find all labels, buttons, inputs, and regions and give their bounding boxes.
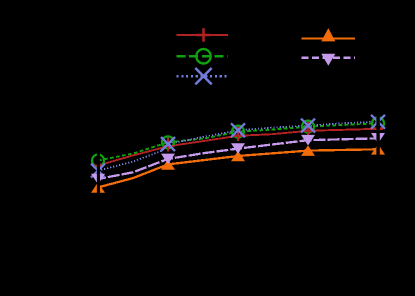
blue X markers	[91, 115, 385, 178]
orange triangle-up markers	[91, 144, 385, 193]
legend entry: orange line with triangle-up marker	[302, 28, 356, 41]
series line: green dashed	[98, 123, 378, 160]
legend entry: green dashed line with circle marker	[177, 49, 229, 63]
series line: red solid	[98, 129, 378, 166]
right axis spine (black, drawn over markers)	[376, 22, 379, 221]
green circle markers	[92, 117, 384, 166]
red error bars	[98, 119, 378, 170]
series line: orange solid	[98, 149, 378, 187]
legend entry: blue dotted line with X marker	[177, 68, 229, 84]
legend entry: purple dashed line with triangle-down marker	[302, 54, 356, 66]
series line: blue dotted	[98, 122, 378, 171]
series line: purple long-dashed	[98, 138, 378, 179]
red plus markers	[93, 124, 383, 171]
purple triangle-down markers	[91, 133, 385, 184]
legend entry: red line with plus marker	[177, 28, 229, 42]
left axis spine (black, drawn over markers)	[97, 22, 100, 221]
